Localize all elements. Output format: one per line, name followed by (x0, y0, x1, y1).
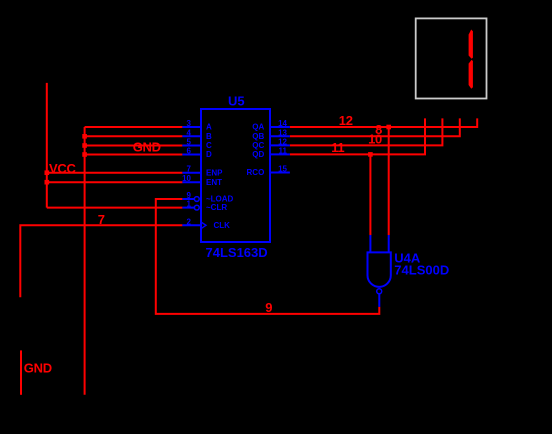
wire net 9 NAND output to ~LOAD (156, 199, 379, 314)
wire ~CLR net VCC (47, 207, 183, 209)
svg-text:12: 12 (278, 137, 287, 146)
junction GND-D (82, 152, 87, 157)
svg-text:11: 11 (279, 146, 288, 155)
wire VCC vertical (46, 83, 48, 208)
7-segment display frame (416, 18, 487, 98)
junction VCC-ENP (45, 170, 50, 175)
display segment B lit (469, 30, 473, 59)
wire QB net 8 (290, 118, 460, 136)
counter U5 body (201, 109, 270, 242)
svg-text:QB: QB (252, 132, 264, 141)
svg-text:15: 15 (278, 165, 287, 174)
svg-text:QA: QA (252, 123, 264, 132)
svg-text:A: A (206, 123, 212, 132)
wire A net GND (85, 126, 183, 128)
svg-text:ENT: ENT (206, 178, 222, 187)
svg-text:U5: U5 (228, 94, 245, 109)
svg-text:7: 7 (187, 165, 192, 174)
wire QA net 12 (290, 118, 477, 127)
svg-text:QC: QC (252, 141, 264, 150)
svg-text:10: 10 (368, 132, 382, 147)
wire ENP net VCC (47, 172, 183, 174)
nand U4A output bubble (377, 289, 382, 294)
pin QD (11) (252, 146, 290, 159)
wire B net GND (85, 135, 183, 137)
wire C net GND (85, 145, 183, 147)
svg-text:ENP: ENP (206, 168, 223, 177)
pin ~LOAD (9) (182, 191, 233, 204)
pin QB (13) (252, 128, 290, 141)
svg-text:9: 9 (265, 300, 272, 315)
wire QA to NAND input (388, 127, 390, 235)
wire QC net 10 (290, 118, 443, 145)
svg-text:7: 7 (98, 212, 105, 227)
junction GND-B (82, 134, 87, 139)
svg-text:6: 6 (187, 147, 192, 156)
svg-text:3: 3 (187, 119, 192, 128)
svg-text:B: B (206, 132, 212, 141)
pin B (4) (182, 128, 212, 141)
pin CLK (2) (182, 217, 230, 230)
svg-text:2: 2 (187, 217, 192, 226)
svg-text:QD: QD (252, 150, 264, 159)
svg-text:74LS00D: 74LS00D (394, 263, 449, 278)
junction QD-NAND (368, 152, 373, 157)
wire GND bus vertical (84, 127, 86, 395)
svg-text:4: 4 (187, 128, 192, 137)
pin ENT (10) (182, 174, 222, 187)
wire GND stub bottom (20, 350, 22, 394)
svg-text:11: 11 (331, 140, 344, 155)
svg-text:13: 13 (278, 128, 287, 137)
svg-text:C: C (206, 141, 212, 150)
nand U4A input pin 2 (388, 235, 390, 252)
svg-text:10: 10 (182, 174, 191, 183)
wire QD to NAND input (369, 154, 371, 235)
svg-text:1: 1 (187, 200, 192, 209)
pin ~CLR (1) (182, 200, 227, 213)
pin RCO (15) (247, 165, 290, 178)
wire D net GND (85, 154, 183, 156)
svg-text:D: D (206, 150, 212, 159)
svg-text:5: 5 (187, 138, 192, 147)
wire CLK net 7 (20, 225, 182, 297)
pin A (3) (182, 119, 212, 132)
nand U4A output pin (378, 294, 380, 307)
svg-text:14: 14 (278, 119, 287, 128)
nand U4A input pin 1 (369, 235, 371, 252)
pin QA (14) (252, 119, 290, 132)
svg-text:RCO: RCO (247, 168, 265, 177)
pin ENP (7) (182, 165, 223, 178)
svg-text:GND: GND (133, 140, 161, 155)
junction QA-NAND (386, 125, 391, 130)
svg-text:~CLR: ~CLR (206, 203, 227, 212)
svg-text:CLK: CLK (214, 221, 231, 230)
junction VCC-ENT (45, 180, 50, 185)
wire QD net 11 (290, 118, 425, 154)
svg-text:74LS163D: 74LS163D (206, 245, 268, 260)
svg-text:VCC: VCC (49, 161, 76, 176)
svg-text:GND: GND (24, 361, 52, 376)
display segment C lit (469, 60, 473, 89)
pin D (6) (182, 147, 212, 160)
pin C (5) (182, 138, 212, 151)
wire ENT net VCC (47, 181, 183, 183)
pin QC (12) (252, 137, 290, 150)
nand gate U4A body (368, 252, 391, 286)
junction GND-C (82, 143, 87, 148)
svg-text:12: 12 (339, 113, 353, 128)
